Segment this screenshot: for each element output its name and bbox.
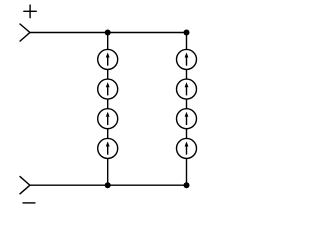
positive input port connector bbox=[20, 24, 30, 42]
current source I2 (left branch) bbox=[98, 79, 118, 99]
minus label (negative terminal) bbox=[23, 202, 36, 204]
current source I8 (right branch) bbox=[177, 138, 197, 158]
wire: I5 to I6 bbox=[186, 69, 188, 79]
wire: I4 to bottom rail bbox=[107, 158, 109, 185]
current source I3 (left branch) bbox=[98, 109, 118, 129]
junction: top rail / left branch bbox=[105, 30, 111, 36]
junction: bottom rail / right branch bbox=[184, 182, 190, 188]
junction: bottom rail / left branch bbox=[105, 182, 111, 188]
plus label (positive terminal) bbox=[23, 5, 37, 19]
wire: bottom rail bbox=[30, 184, 187, 186]
negative input port connector bbox=[20, 176, 30, 194]
wire: I8 to bottom rail bbox=[186, 158, 188, 185]
current source I1 (left branch) bbox=[98, 49, 118, 69]
wire: top rail bbox=[30, 32, 187, 34]
current source I6 (right branch) bbox=[177, 79, 197, 99]
wire: top rail to current source I5 bbox=[186, 33, 188, 50]
wire: I7 to I8 bbox=[186, 129, 188, 139]
wire: top rail to current source I1 bbox=[107, 33, 109, 50]
wire: I1 to I2 bbox=[107, 69, 109, 79]
junction: top rail / right branch bbox=[184, 30, 190, 36]
current source I7 (right branch) bbox=[177, 109, 197, 129]
wire: I2 to I3 bbox=[107, 99, 109, 109]
wire: I3 to I4 bbox=[107, 129, 109, 139]
current source I5 (right branch) bbox=[177, 49, 197, 69]
current source I4 (left branch) bbox=[98, 138, 118, 158]
wire: I6 to I7 bbox=[186, 99, 188, 109]
